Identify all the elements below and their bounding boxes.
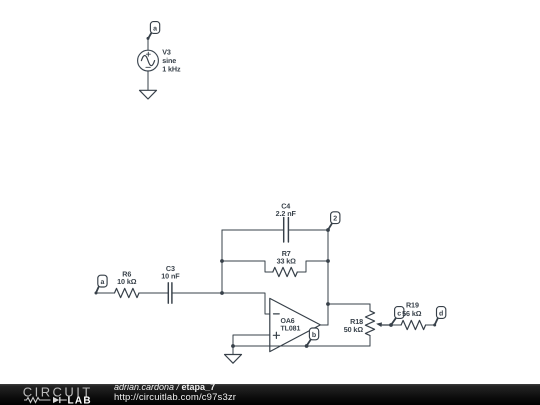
- wire (output to R18 top): [320, 304, 370, 325]
- svg-text:56 kΩ: 56 kΩ: [402, 309, 422, 318]
- capacitor C3: [161, 264, 180, 303]
- potentiometer R18: [344, 304, 391, 346]
- wire: [172, 293, 270, 314]
- CircuitLab logo: [0, 384, 100, 405]
- ground (op-amp): [225, 346, 242, 363]
- ground (source): [140, 90, 157, 99]
- svg-text:b: b: [312, 331, 316, 339]
- wire: [147, 71, 149, 90]
- node junction: [326, 259, 330, 263]
- footer bar: [0, 384, 540, 405]
- node junction: [326, 228, 330, 232]
- svg-text:c: c: [397, 310, 401, 317]
- wire: [288, 229, 328, 231]
- node c: [389, 307, 404, 327]
- node junction: [231, 344, 235, 348]
- op-amp OA6: [270, 298, 321, 351]
- wire (right vertical): [327, 230, 329, 325]
- svg-text:33 kΩ: 33 kΩ: [277, 257, 297, 266]
- svg-text:a: a: [153, 25, 157, 32]
- svg-text:10 nF: 10 nF: [161, 272, 180, 281]
- wire: [147, 38, 149, 50]
- node d: [433, 307, 446, 327]
- svg-text:V3: V3: [162, 47, 171, 56]
- wire (bottom): [233, 336, 370, 347]
- resistor R7: [222, 249, 328, 277]
- svg-text:d: d: [439, 309, 443, 317]
- resistor R19: [391, 300, 435, 329]
- svg-text:R19: R19: [406, 300, 419, 309]
- wire: [96, 292, 115, 294]
- resistor R6: [115, 269, 140, 297]
- node b: [305, 328, 319, 348]
- capacitor C4: [276, 201, 297, 242]
- node junction: [220, 259, 224, 263]
- wire (top): [222, 229, 284, 231]
- wire (+ input to ground): [233, 335, 270, 346]
- svg-text:sine: sine: [162, 56, 176, 65]
- svg-text:2.2 nF: 2.2 nF: [276, 209, 297, 218]
- svg-text:TL081: TL081: [281, 326, 301, 333]
- svg-text:10 kΩ: 10 kΩ: [117, 277, 137, 286]
- node 2: [328, 212, 340, 230]
- svg-text:1 kHz: 1 kHz: [162, 65, 181, 74]
- svg-text:OA6: OA6: [281, 318, 295, 325]
- svg-text:a: a: [101, 279, 105, 286]
- node junction: [220, 291, 224, 295]
- svg-text:LAB: LAB: [68, 395, 92, 405]
- svg-text:50 kΩ: 50 kΩ: [344, 325, 364, 334]
- voltage source V3: [138, 47, 181, 73]
- node junction: [326, 302, 330, 306]
- node a (source top): [147, 22, 160, 40]
- footer text: [114, 383, 215, 392]
- node a (input): [95, 275, 108, 294]
- svg-text:2: 2: [333, 216, 337, 223]
- wire (feedback left vertical): [221, 230, 223, 293]
- wire: [139, 292, 168, 294]
